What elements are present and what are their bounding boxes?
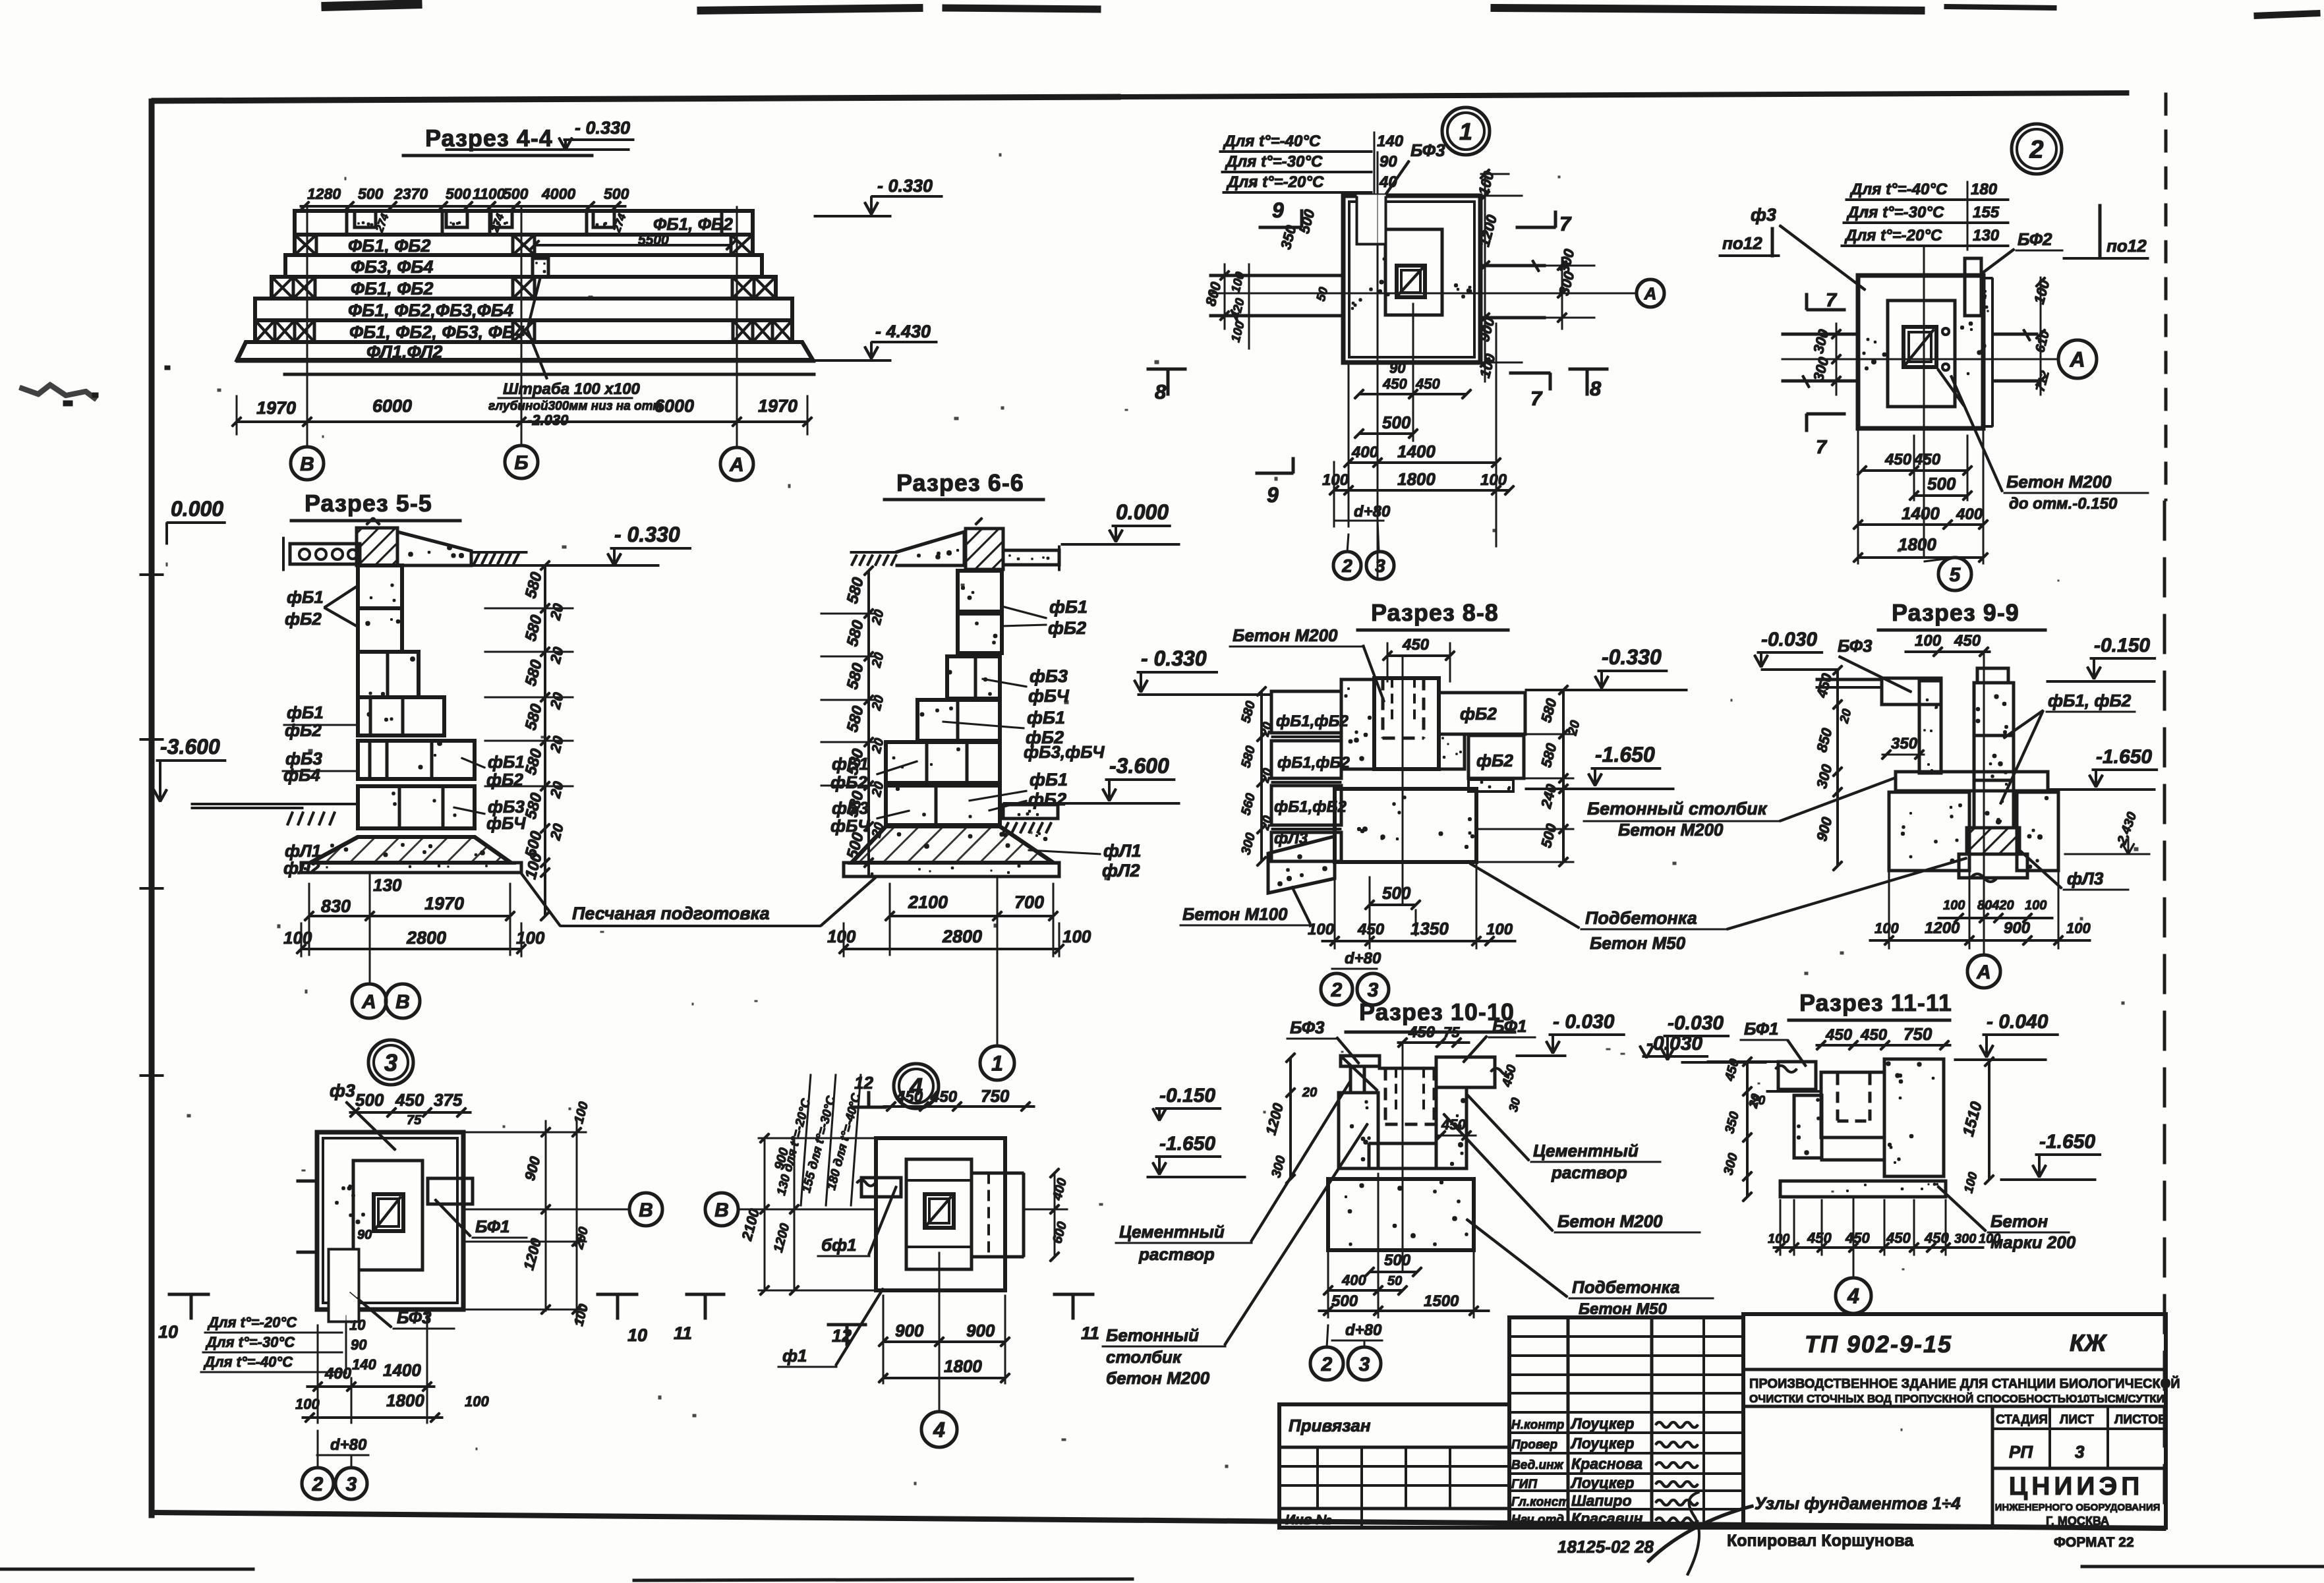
right slab 6-6 (1003, 550, 1059, 565)
grid bubble A 5-5 (352, 984, 386, 1018)
section 4-4 base lines (236, 360, 815, 362)
svg-text:d+80: d+80 (1345, 1321, 1382, 1339)
8-8 right dim chain (1563, 690, 1565, 862)
svg-text:Подбетонка: Подбетонка (1585, 908, 1697, 928)
detail 4 rotated dims left (764, 1138, 765, 1290)
svg-text:ПРОИЗВОДСТВЕННОЕ ЗДАНИЕ ДЛЯ СТ: ПРОИЗВОДСТВЕННОЕ ЗДАНИЕ ДЛЯ СТАНЦИИ БИОЛ… (1749, 1375, 2180, 1391)
svg-text:2370: 2370 (393, 185, 428, 202)
svg-text:Гл.конст: Гл.конст (1511, 1495, 1569, 1509)
svg-text:100: 100 (2066, 920, 2091, 936)
svg-text:3: 3 (2075, 1442, 2085, 1462)
svg-text:6000: 6000 (654, 396, 694, 416)
detail 4 right rotated dims (1054, 1173, 1055, 1257)
detail 4 axis bubble 4 (939, 1252, 940, 1413)
svg-text:Г. МОСКВА: Г. МОСКВА (2046, 1514, 2109, 1528)
svg-text:Лоуцкер: Лоуцкер (1570, 1474, 1634, 1491)
svg-text:450: 450 (1415, 376, 1440, 392)
detail 3 bottom channel BF3 (329, 1250, 359, 1321)
svg-text:7: 7 (1530, 387, 1543, 410)
detail 1 inner rect (1385, 229, 1442, 315)
svg-text:450: 450 (1382, 376, 1407, 392)
svg-text:столбик: столбик (1106, 1347, 1182, 1367)
svg-text:2: 2 (1331, 979, 1343, 1001)
10-10 left T element BF3 (1341, 1056, 1380, 1066)
svg-text:1800: 1800 (1898, 534, 1936, 554)
column axis to bubbles 5-5 (369, 873, 370, 984)
grid bubble 1 (980, 1046, 1014, 1080)
svg-text:4: 4 (1847, 1284, 1859, 1308)
grid bubble A (720, 447, 753, 480)
detail 4 cut 12 bottom (827, 1323, 867, 1326)
detail 3 bubble (368, 1040, 413, 1085)
svg-text:130: 130 (373, 875, 402, 895)
svg-text:Красавин: Красавин (1571, 1510, 1643, 1527)
detail 4 inner pier (906, 1159, 972, 1269)
svg-text:А: А (1976, 962, 1991, 983)
svg-text:фБ2: фБ2 (1028, 790, 1066, 809)
sheet frame top border (152, 97, 1120, 101)
svg-text:2800: 2800 (942, 927, 982, 946)
floor slab with voids (290, 544, 360, 564)
svg-text:Вед.инж: Вед.инж (1511, 1458, 1564, 1472)
detail 1 plan outer square (1343, 196, 1480, 362)
9-9 axis and bubble A (1983, 652, 1985, 955)
block stack 5-5 (358, 565, 402, 608)
detail 1 axis bubble A (1637, 279, 1664, 307)
8-8 central pier (1341, 679, 1374, 769)
svg-text:5500: 5500 (638, 233, 669, 248)
svg-text:ИНЖЕНЕРНОГО ОБОРУДОВАНИЯ: ИНЖЕНЕРНОГО ОБОРУДОВАНИЯ (1995, 1502, 2161, 1513)
detail 4 bubble (894, 1064, 939, 1108)
svg-text:Разрез 5-5: Разрез 5-5 (305, 490, 432, 517)
svg-text:100: 100 (1486, 921, 1513, 938)
detail 1 right wing wall (1480, 264, 1546, 267)
svg-text:РП: РП (2009, 1442, 2033, 1462)
svg-text:1970: 1970 (758, 396, 798, 416)
svg-text:1800: 1800 (944, 1356, 982, 1376)
svg-text:фБ1: фБ1 (1027, 708, 1065, 728)
svg-text:фБ4: фБ4 (283, 765, 320, 785)
svg-text:ф1: ф1 (782, 1346, 807, 1366)
svg-text:500: 500 (604, 185, 629, 202)
svg-text:Краснова: Краснова (1571, 1455, 1642, 1472)
svg-text:фБЧ: фБЧ (1028, 686, 1070, 706)
detail 2 bubble (2012, 124, 2062, 174)
svg-text:Копировал Коршунова: Копировал Коршунова (1727, 1532, 1914, 1550)
svg-text:- 0.330: - 0.330 (614, 523, 680, 546)
svg-text:500: 500 (1384, 1252, 1411, 1269)
foundation pad 6-6 (852, 826, 1053, 863)
svg-text:фБ2: фБ2 (830, 772, 867, 792)
svg-text:Бетон М100: Бетон М100 (1182, 904, 1288, 924)
svg-text:1400: 1400 (383, 1360, 421, 1380)
sheet frame left border (149, 99, 154, 1518)
svg-text:2: 2 (1321, 1354, 1333, 1375)
svg-text:140: 140 (352, 1356, 376, 1373)
grid bubble V 5-5 (386, 984, 420, 1018)
svg-text:450: 450 (1807, 1230, 1832, 1246)
svg-text:1500: 1500 (1424, 1292, 1459, 1310)
9-9 floor line and BF3 wall (1816, 678, 1882, 681)
detail 3 right protrusion BF1 (428, 1178, 473, 1204)
title block left table privyazan (1279, 1404, 1509, 1528)
detail 4 temperature rotated rows (801, 1074, 811, 1206)
svg-text:100: 100 (465, 1393, 489, 1410)
svg-text:1100: 1100 (473, 185, 506, 202)
10-10 left dim chain (1290, 1058, 1292, 1180)
svg-text:1800: 1800 (1397, 469, 1436, 489)
svg-text:ФБ1, ФБ2,ФБ3,ФБ4: ФБ1, ФБ2,ФБ3,ФБ4 (348, 301, 513, 320)
title block right part (1743, 1314, 2166, 1528)
svg-text:-1.650: -1.650 (2039, 1131, 2095, 1153)
svg-text:ФЛ1,ФЛ2: ФЛ1,ФЛ2 (366, 342, 442, 362)
svg-text:ЛИСТОВ: ЛИСТОВ (2114, 1413, 2167, 1427)
svg-text:БФ3: БФ3 (1838, 636, 1873, 656)
svg-text:10: 10 (158, 1322, 178, 1342)
sand bed slab 5-5 (301, 863, 521, 873)
svg-text:18125-02 28: 18125-02 28 (1557, 1537, 1654, 1557)
9-9 left dim chain (1837, 670, 1839, 866)
detail 4 axis to bubble V left (738, 1209, 876, 1210)
svg-text:500: 500 (446, 185, 471, 202)
svg-text:2: 2 (2029, 136, 2043, 164)
svg-text:450: 450 (1860, 1026, 1888, 1044)
svg-text:фБ2: фБ2 (1460, 704, 1497, 724)
section 4-4 bottom dimension line (237, 421, 807, 423)
svg-text:фБ1,фБ2: фБ1,фБ2 (1276, 712, 1349, 730)
svg-text:А: А (1644, 283, 1657, 303)
8-8 concrete M100 wedge (1268, 836, 1335, 893)
svg-text:130: 130 (1973, 227, 2000, 245)
detail 4 right attachment (972, 1172, 1024, 1174)
svg-text:-3.600: -3.600 (160, 735, 220, 759)
svg-text:ФБ1, ФБ2: ФБ1, ФБ2 (348, 236, 430, 256)
svg-text:400: 400 (1341, 1272, 1366, 1288)
detail 3 bubbles 2 3 (317, 1430, 318, 1468)
section 4-4 shtraba note (527, 277, 540, 330)
8-8 right block rows (1439, 693, 1525, 734)
svg-text:БФ1: БФ1 (1744, 1019, 1779, 1039)
detail 2 axis bubble A right (2058, 340, 2097, 378)
svg-text:-0.030: -0.030 (1761, 629, 1817, 650)
svg-text:1280: 1280 (307, 185, 341, 202)
svg-text:А: А (2069, 348, 2085, 372)
svg-text:8: 8 (1590, 377, 1602, 400)
section 4-4 row4 FB1 FB2 (272, 277, 776, 299)
svg-text:ФБ3, ФБ4: ФБ3, ФБ4 (351, 257, 433, 277)
svg-text:Бетон М50: Бетон М50 (1590, 933, 1686, 953)
section 4-4 row5 (255, 299, 792, 320)
svg-text:1400: 1400 (1397, 442, 1436, 461)
paper edge marks top (322, 4, 422, 7)
svg-text:БФ2: БФ2 (2018, 229, 2052, 249)
detail 2 BF2 element top (1965, 258, 1981, 316)
detail 2 bubble 5 below (1924, 558, 1955, 561)
svg-text:Шапиро: Шапиро (1571, 1492, 1632, 1509)
detail 3 column (374, 1194, 403, 1231)
svg-text:0.000: 0.000 (1116, 500, 1169, 524)
svg-text:4000: 4000 (541, 185, 575, 202)
svg-text:100: 100 (516, 928, 545, 948)
svg-text:0.000: 0.000 (171, 497, 223, 521)
ground hatch right 5-5 (474, 554, 479, 564)
svg-text:100: 100 (295, 1396, 320, 1412)
svg-text:100: 100 (827, 927, 856, 946)
svg-text:Разрез 11-11: Разрез 11-11 (1799, 989, 1952, 1016)
svg-text:ОЧИСТКИ СТОЧНЫХ ВОД ПРОПУСКНОЙ: ОЧИСТКИ СТОЧНЫХ ВОД ПРОПУСКНОЙ СПОСОБНОС… (1749, 1393, 2164, 1405)
svg-text:фБ2: фБ2 (1476, 751, 1513, 770)
8-8 foundation block (1335, 789, 1476, 862)
svg-text:2800: 2800 (406, 928, 446, 948)
svg-text:Для t°=-30°C: Для t°=-30°C (1846, 204, 1944, 221)
svg-text:450: 450 (1954, 632, 1981, 650)
11-11 dim 1510 (1989, 1062, 1990, 1180)
svg-text:фБ2: фБ2 (285, 609, 322, 629)
svg-text:Узлы фундаментов 1÷4: Узлы фундаментов 1÷4 (1755, 1493, 1961, 1513)
svg-text:3: 3 (346, 1474, 357, 1495)
svg-text:фБ2: фБ2 (285, 720, 322, 740)
detail 3 axis line to bubble V (463, 1209, 629, 1210)
svg-text:9: 9 (1267, 483, 1279, 507)
svg-text:7: 7 (1559, 212, 1572, 235)
svg-text:450: 450 (930, 1088, 958, 1106)
svg-text:75: 75 (407, 1113, 422, 1128)
svg-text:2: 2 (1341, 556, 1352, 576)
svg-text:450: 450 (1408, 1023, 1436, 1041)
svg-text:500: 500 (503, 185, 529, 202)
9-9 FL3 hatched pad (1967, 828, 2019, 854)
svg-text:глубиной300мм низ на отм: глубиной300мм низ на отм (488, 399, 662, 413)
svg-text:Привязан: Привязан (1289, 1416, 1371, 1435)
scan speckles (1429, 147, 1431, 149)
sand bed slab 6-6 (844, 863, 1059, 877)
detail 2 cut marks 7 (1807, 308, 1845, 311)
svg-text:300: 300 (1954, 1232, 1976, 1246)
svg-text:ФБ1, ФБ2, ФБ3, ФБ4: ФБ1, ФБ2, ФБ3, ФБ4 (349, 322, 525, 342)
title block central column table (1509, 1317, 1743, 1528)
svg-text:500: 500 (358, 185, 384, 202)
svg-text:450: 450 (1884, 451, 1912, 469)
foundation pad FL1 5-5 (310, 837, 511, 863)
svg-text:450: 450 (1357, 921, 1385, 938)
svg-text:Подбетонка: Подбетонка (1572, 1277, 1680, 1297)
svg-text:3: 3 (1368, 979, 1379, 1001)
svg-text:до отм.-0.150: до отм.-0.150 (2009, 495, 2118, 513)
11-11 left dim chain (1747, 1062, 1749, 1197)
svg-text:100: 100 (1915, 632, 1942, 650)
svg-text:Для t°=-30°C: Для t°=-30°C (205, 1334, 295, 1350)
svg-text:Для t°=-40°C: Для t°=-40°C (203, 1354, 293, 1370)
svg-text:700: 700 (1014, 892, 1044, 912)
8-8 left block rows (1271, 691, 1341, 733)
svg-text:В: В (639, 1199, 653, 1221)
svg-text:d+80: d+80 (1354, 503, 1391, 521)
svg-text:Нач.отд: Нач.отд (1511, 1513, 1564, 1527)
detail 2 right border strip (1983, 277, 1992, 279)
11-11 left dotted column (1794, 1095, 1822, 1158)
svg-text:раствор: раствор (1138, 1244, 1215, 1264)
10-10 bubbles 2 3 (1327, 1325, 1328, 1347)
svg-text:- 4.430: - 4.430 (875, 322, 931, 341)
section 4-4 column axis lines (306, 206, 308, 447)
svg-text:90: 90 (1389, 360, 1406, 376)
svg-text:750: 750 (1903, 1024, 1932, 1044)
svg-text:- 0.040: - 0.040 (1987, 1011, 2048, 1033)
detail 1 BF3 channel top (1357, 196, 1385, 244)
svg-text:450: 450 (1825, 1026, 1853, 1044)
detail 2 concrete dots zones (1872, 360, 1876, 364)
svg-text:Инв №: Инв № (1285, 1512, 1331, 1528)
detail 2 right wing (1992, 333, 2038, 335)
sheet frame right border (dashed) (2164, 93, 2167, 501)
svg-text:Для t°=-20°C: Для t°=-20°C (1226, 173, 1324, 191)
svg-text:100: 100 (1062, 927, 1091, 946)
svg-text:6000: 6000 (372, 396, 412, 416)
10-10 pier outline right (1378, 1067, 1436, 1070)
svg-text:бф1: бф1 (821, 1235, 857, 1255)
svg-text:-1.650: -1.650 (1595, 743, 1655, 766)
detail 3 right rotated dims (545, 1120, 546, 1311)
svg-text:100: 100 (1768, 1232, 1789, 1246)
svg-text:фЛ2: фЛ2 (283, 858, 320, 878)
dim chain 580/20 right of 5-5 (544, 565, 546, 916)
detail 2 column square (1903, 327, 1936, 367)
svg-text:12: 12 (854, 1073, 873, 1093)
svg-text:марки 200: марки 200 (1990, 1232, 2076, 1252)
svg-text:ТП 902-9-15: ТП 902-9-15 (1805, 1331, 1952, 1358)
svg-text:ФБ1, ФБ2: ФБ1, ФБ2 (351, 279, 433, 299)
svg-text:d+80: d+80 (330, 1436, 367, 1454)
svg-text:Бетон М200: Бетон М200 (1557, 1211, 1663, 1231)
svg-text:100: 100 (1322, 471, 1349, 489)
svg-text:Для t°=-40°C: Для t°=-40°C (1223, 132, 1321, 150)
svg-text:БФ1: БФ1 (1492, 1016, 1527, 1036)
svg-text:1200: 1200 (1925, 919, 1960, 937)
detail 3 inner rect (353, 1161, 422, 1270)
10-10 foundation block (1328, 1179, 1474, 1250)
svg-text:Цементный: Цементный (1119, 1222, 1225, 1242)
svg-text:Б: Б (514, 452, 528, 474)
detail 3 concrete dots (349, 1185, 351, 1188)
fold tick marks on left border (140, 574, 163, 576)
svg-text:- 0.330: - 0.330 (575, 118, 630, 138)
svg-text:Разрез 8-8: Разрез 8-8 (1371, 599, 1499, 626)
svg-text:бетон М200: бетон М200 (1106, 1368, 1210, 1388)
svg-text:5: 5 (1950, 564, 1961, 586)
svg-text:фБ1: фБ1 (488, 752, 525, 772)
detail 1 vertical centerline (1377, 152, 1378, 580)
svg-text:ф3: ф3 (330, 1081, 355, 1101)
10-10 centerline (1402, 1043, 1403, 1272)
svg-text:Бетонный столбик: Бетонный столбик (1587, 799, 1768, 819)
svg-text:фБ1: фБ1 (1030, 770, 1068, 790)
svg-text:В: В (395, 991, 410, 1013)
svg-text:ЛИСТ: ЛИСТ (2060, 1413, 2094, 1427)
svg-text:ЦНИИЭП: ЦНИИЭП (2009, 1472, 2144, 1501)
svg-text:75: 75 (1443, 1024, 1460, 1041)
svg-text:-0.030: -0.030 (1668, 1012, 1724, 1034)
svg-text:ф3: ф3 (1751, 205, 1776, 225)
svg-text:Разрез 9-9: Разрез 9-9 (1892, 599, 2019, 626)
svg-text:1: 1 (1459, 118, 1472, 145)
svg-text:-0.030: -0.030 (1646, 1033, 1702, 1054)
svg-text:450: 450 (395, 1090, 424, 1110)
grid bubble V (291, 447, 324, 480)
column hatched 6-6 (966, 529, 1003, 569)
svg-text:БФ3: БФ3 (1410, 140, 1445, 160)
svg-text:100: 100 (1943, 898, 1965, 913)
svg-text:фБ1: фБ1 (287, 587, 324, 607)
svg-text:900: 900 (895, 1321, 924, 1340)
10-10 central pier (1339, 1093, 1378, 1168)
bottom stray lines (0, 1568, 254, 1570)
9-9 block column (1977, 668, 2008, 683)
10-10 BF1 block right (1436, 1057, 1495, 1087)
svg-text:фБ1, фБ2: фБ1, фБ2 (2048, 691, 2132, 710)
svg-text:1970: 1970 (424, 894, 464, 913)
column hatched top 5-5 (357, 528, 397, 565)
svg-text:500: 500 (1382, 883, 1411, 903)
11-11 central pier with channel (1821, 1072, 1884, 1137)
svg-text:80420: 80420 (1977, 898, 2014, 913)
section 4-4 row7 FL slab (237, 342, 813, 360)
detail 3 cut marks 11 left (685, 1293, 725, 1296)
svg-text:100: 100 (2025, 898, 2047, 913)
ground ramp right 5-5 (397, 532, 471, 565)
svg-text:-1.650: -1.650 (2096, 746, 2152, 768)
svg-text:7: 7 (1816, 437, 1828, 458)
detail 1 cut mark 8 left (1147, 368, 1186, 370)
11-11 base slab (1780, 1181, 1946, 1197)
svg-text:Лоуцкер: Лоуцкер (1570, 1435, 1634, 1452)
title block stage cells (1991, 1406, 1994, 1528)
svg-text:20: 20 (1302, 1085, 1317, 1100)
ground left 6-6 (896, 532, 964, 565)
svg-text:СТАДИЯ: СТАДИЯ (1996, 1413, 2048, 1427)
axis to bubble 1 (997, 877, 998, 1047)
svg-text:-2.030: -2.030 (527, 412, 569, 428)
section 4-4 row6 (255, 320, 792, 342)
svg-text:-1.650: -1.650 (1159, 1133, 1215, 1155)
detail 4 left BF1 block (861, 1178, 901, 1197)
svg-text:500: 500 (1382, 413, 1411, 432)
svg-text:-0.150: -0.150 (2094, 635, 2150, 656)
svg-text:Песчаная подготовка: Песчаная подготовка (572, 904, 770, 923)
svg-text:-3.600: -3.600 (1109, 754, 1169, 778)
svg-text:ФОРМАТ 22: ФОРМАТ 22 (2054, 1535, 2134, 1550)
svg-text:фБ1,фБ2: фБ1,фБ2 (1277, 754, 1350, 772)
detail 2 po12 right (2099, 204, 2101, 257)
svg-text:Для t°=-20°C: Для t°=-20°C (207, 1314, 297, 1331)
11-11 right big block (1884, 1059, 1944, 1176)
detail 2 left wing (1782, 333, 1858, 335)
detail 1 column (1397, 266, 1425, 297)
svg-text:- 0.030: - 0.030 (1553, 1011, 1615, 1033)
svg-text:фБ3: фБ3 (1030, 666, 1068, 686)
svg-text:50: 50 (1387, 1274, 1402, 1288)
svg-text:- 0.330: - 0.330 (877, 176, 933, 196)
8-8 left dim chain (1261, 691, 1263, 861)
svg-text:450: 450 (896, 1088, 923, 1106)
svg-text:3: 3 (1359, 1354, 1370, 1375)
detail 4 plan outline (876, 1138, 1005, 1290)
dim chain 580/20 left of 6-6 (868, 571, 870, 877)
svg-text:350: 350 (1891, 735, 1918, 753)
svg-text:КЖ: КЖ (2070, 1329, 2107, 1356)
detail 1 bubble (1442, 107, 1490, 155)
svg-text:В: В (300, 453, 314, 475)
detail 1 extension lines (1348, 362, 1349, 527)
